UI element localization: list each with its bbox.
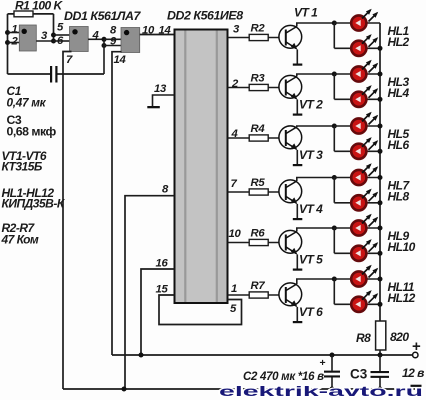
LED HL8	[351, 189, 378, 211]
svg-text:13: 13	[154, 83, 167, 95]
node LED pair 4	[332, 175, 337, 180]
label HL pair 4	[388, 179, 411, 204]
label HL pair 5	[388, 229, 416, 254]
svg-text:5: 5	[57, 22, 64, 34]
svg-text:R8: R8	[356, 331, 371, 345]
svg-text:DD2 К561ИЕ8: DD2 К561ИЕ8	[167, 9, 243, 23]
svg-text:+: +	[320, 357, 326, 369]
resistor R3	[249, 73, 286, 91]
LED HL3	[351, 60, 378, 82]
wire pin5	[54, 22, 70, 36]
wire pins 8-9 tie	[104, 25, 121, 75]
svg-text:5: 5	[230, 303, 237, 315]
label C1 value	[7, 84, 47, 110]
svg-text:4: 4	[92, 30, 100, 42]
svg-text:820: 820	[390, 330, 409, 344]
label R type	[1, 221, 39, 247]
ground VT4	[293, 218, 303, 220]
LED HL12	[351, 290, 378, 312]
resistor R8	[356, 321, 409, 355]
svg-text:10: 10	[229, 228, 242, 240]
svg-text:HL10: HL10	[388, 240, 416, 254]
wire left rail	[7, 14, 9, 74]
node LED pair 1	[332, 21, 337, 26]
wire DD2 pin16 to plus rail	[141, 258, 175, 356]
wire emitter VT1	[296, 50, 298, 64]
label HL pair 2	[388, 75, 410, 100]
transistor VT5	[279, 230, 302, 254]
svg-text:C3: C3	[350, 367, 368, 382]
resistor R5	[249, 177, 286, 195]
wire DD2 pin8 to ground rail	[125, 184, 175, 390]
svg-text:R6: R6	[251, 228, 266, 240]
svg-text:R5: R5	[251, 177, 266, 189]
resistor R6	[249, 228, 286, 246]
svg-text:elektrik-avto.ru: elektrik-avto.ru	[219, 384, 423, 400]
svg-text:7: 7	[231, 178, 238, 190]
wire DD2 pin15 reset loop to pin5	[156, 284, 242, 325]
label VT5	[299, 253, 323, 267]
wire LED pair 2	[334, 74, 380, 99]
transistor VT2	[279, 75, 302, 99]
wire emitter VT3	[296, 150, 298, 164]
svg-text:HL2: HL2	[388, 35, 410, 49]
svg-text:КИПД35В-К: КИПД35В-К	[2, 197, 66, 211]
wire collector VT5	[297, 228, 335, 232]
transistor VT6	[279, 283, 302, 307]
LED HL11	[351, 265, 378, 287]
svg-text:16: 16	[156, 258, 169, 270]
svg-text:R4: R4	[251, 123, 266, 135]
LED HL5	[351, 112, 378, 134]
LED HL4	[351, 85, 378, 107]
wire DD2 pin7 output	[228, 178, 250, 192]
svg-text:VT 4: VT 4	[299, 202, 323, 216]
label DD2	[167, 9, 243, 23]
svg-text:3: 3	[41, 30, 48, 42]
svg-text:47 Ком: 47 Ком	[1, 233, 39, 247]
svg-text:HL4: HL4	[388, 86, 410, 100]
wire DD2 pin2 output	[228, 78, 250, 90]
wire LED pair 4	[334, 178, 380, 203]
capacitor C1	[8, 66, 105, 83]
svg-text:7: 7	[66, 54, 73, 66]
gate DD1.3	[121, 28, 140, 53]
wire LED pair 3	[334, 126, 380, 151]
wire collector VT6	[297, 279, 335, 284]
label HL type	[2, 186, 66, 211]
gate DD1.1	[19, 25, 36, 51]
label DD1	[64, 9, 141, 23]
wire DD2 pin1 output	[228, 283, 250, 295]
svg-text:1: 1	[12, 24, 18, 36]
wire pin1	[8, 24, 20, 36]
wire emitter VT6	[296, 307, 298, 321]
node LED pair 3	[332, 124, 337, 129]
svg-text:VT 5: VT 5	[299, 253, 323, 267]
label VT4	[299, 202, 323, 216]
ground VT6	[293, 321, 303, 323]
svg-text:8: 8	[162, 184, 169, 196]
svg-text:0,47 мк: 0,47 мк	[7, 96, 47, 110]
IC DD2 К561ИЕ8	[175, 30, 228, 304]
svg-text:4: 4	[231, 128, 239, 140]
wire pin2	[8, 36, 20, 48]
label HL pair 6	[388, 280, 416, 305]
wire ground rail	[63, 387, 417, 392]
node LED pair 2	[332, 72, 337, 77]
svg-text:R7: R7	[251, 280, 266, 292]
wire plus rail	[112, 353, 413, 358]
resistor R2	[249, 23, 286, 41]
resistor R4	[249, 123, 286, 141]
resistor R1	[14, 0, 64, 17]
wire collector VT4	[297, 178, 335, 182]
svg-text:VT 1: VT 1	[294, 6, 318, 20]
node C1 return	[102, 37, 107, 48]
svg-text:HL6: HL6	[388, 138, 410, 152]
svg-text:10: 10	[142, 24, 155, 36]
svg-text:HL12: HL12	[388, 291, 416, 305]
wire top feedback	[8, 14, 54, 41]
terminal plus	[412, 338, 421, 358]
svg-text:+: +	[412, 338, 421, 355]
wire collector VT3	[297, 126, 335, 127]
LED HL9	[351, 214, 378, 236]
svg-text:9: 9	[110, 36, 117, 48]
transistor VT1	[279, 25, 302, 49]
wire collector VT2	[297, 74, 335, 77]
ground VT3	[293, 164, 303, 166]
LED HL6	[351, 137, 378, 159]
terminal minus	[411, 385, 422, 387]
capacitor C2	[320, 355, 341, 389]
LED HL2	[351, 34, 378, 56]
svg-text:КТ315Б: КТ315Б	[2, 160, 43, 174]
wire DD1 pin14 to plus rail	[112, 52, 126, 355]
wire LED pair 6	[334, 279, 380, 304]
svg-text:14: 14	[114, 54, 127, 66]
LED HL10	[351, 239, 378, 261]
svg-text:1: 1	[231, 283, 237, 295]
svg-text:HL8: HL8	[388, 189, 410, 203]
transistor VT3	[279, 126, 302, 150]
wire emitter VT2	[296, 100, 298, 114]
wire gate2 out pin4	[88, 30, 104, 42]
LED HL7	[351, 163, 378, 185]
node LED pair 6	[332, 277, 337, 282]
svg-text:R3: R3	[251, 73, 266, 85]
label HL pair 3	[388, 127, 410, 152]
wire gate3 out pin10 to DD2 pin14	[140, 24, 175, 36]
label VT3	[299, 148, 323, 162]
label VT type	[2, 149, 47, 174]
node feedback	[51, 33, 56, 44]
wire DD2 pin10 output	[228, 228, 250, 243]
node LED pair 5	[332, 226, 337, 231]
wire emitter VT5	[296, 255, 298, 269]
wire DD2 pin3 output	[228, 24, 250, 38]
resistor R7	[249, 280, 286, 298]
ground VT2	[293, 114, 303, 116]
svg-text:6: 6	[57, 35, 64, 47]
label C2	[243, 371, 324, 383]
label VT2	[299, 98, 323, 112]
svg-text:15: 15	[156, 284, 169, 296]
label VT6	[299, 305, 323, 319]
label VT1	[294, 6, 318, 20]
wire DD1 pin7 to ground rail	[63, 52, 73, 390]
wire LED cathode bus	[378, 23, 383, 321]
svg-text:VT 2: VT 2	[299, 98, 323, 112]
label 12v	[402, 366, 424, 380]
wire gate1 out pin3	[36, 30, 53, 42]
watermark	[219, 384, 423, 400]
wire DD2 pin13	[153, 83, 175, 106]
ground pin13	[147, 106, 160, 108]
wire pin6	[54, 35, 70, 47]
wire collector VT1	[297, 23, 335, 27]
svg-text:12 в: 12 в	[402, 366, 424, 380]
label C3 value	[7, 113, 57, 139]
svg-text:3: 3	[233, 24, 240, 36]
svg-text:VT 6: VT 6	[299, 305, 323, 319]
svg-text:14: 14	[159, 24, 172, 36]
label HL pair 1	[388, 24, 410, 49]
transistor VT4	[279, 180, 302, 204]
svg-text:R2: R2	[251, 23, 266, 35]
wire emitter VT4	[296, 204, 298, 218]
LED HL1	[351, 9, 378, 31]
wire LED pair 5	[334, 228, 380, 253]
svg-text:VT 3: VT 3	[299, 148, 323, 162]
ground VT5	[293, 269, 303, 271]
svg-text:DD1 К561ЛА7: DD1 К561ЛА7	[64, 9, 141, 23]
svg-text:2: 2	[11, 36, 19, 48]
svg-text:0,68 мкф: 0,68 мкф	[7, 125, 57, 139]
ground VT1	[293, 64, 303, 66]
wire DD2 pin4 output	[228, 128, 250, 140]
wire LED pair 1	[334, 23, 380, 48]
node pins 1-2	[5, 30, 10, 45]
gate DD1.2	[70, 27, 89, 52]
capacitor C3	[350, 355, 389, 389]
svg-text:C2 470 мк *16 в: C2 470 мк *16 в	[243, 371, 324, 383]
svg-text:2: 2	[231, 78, 239, 90]
